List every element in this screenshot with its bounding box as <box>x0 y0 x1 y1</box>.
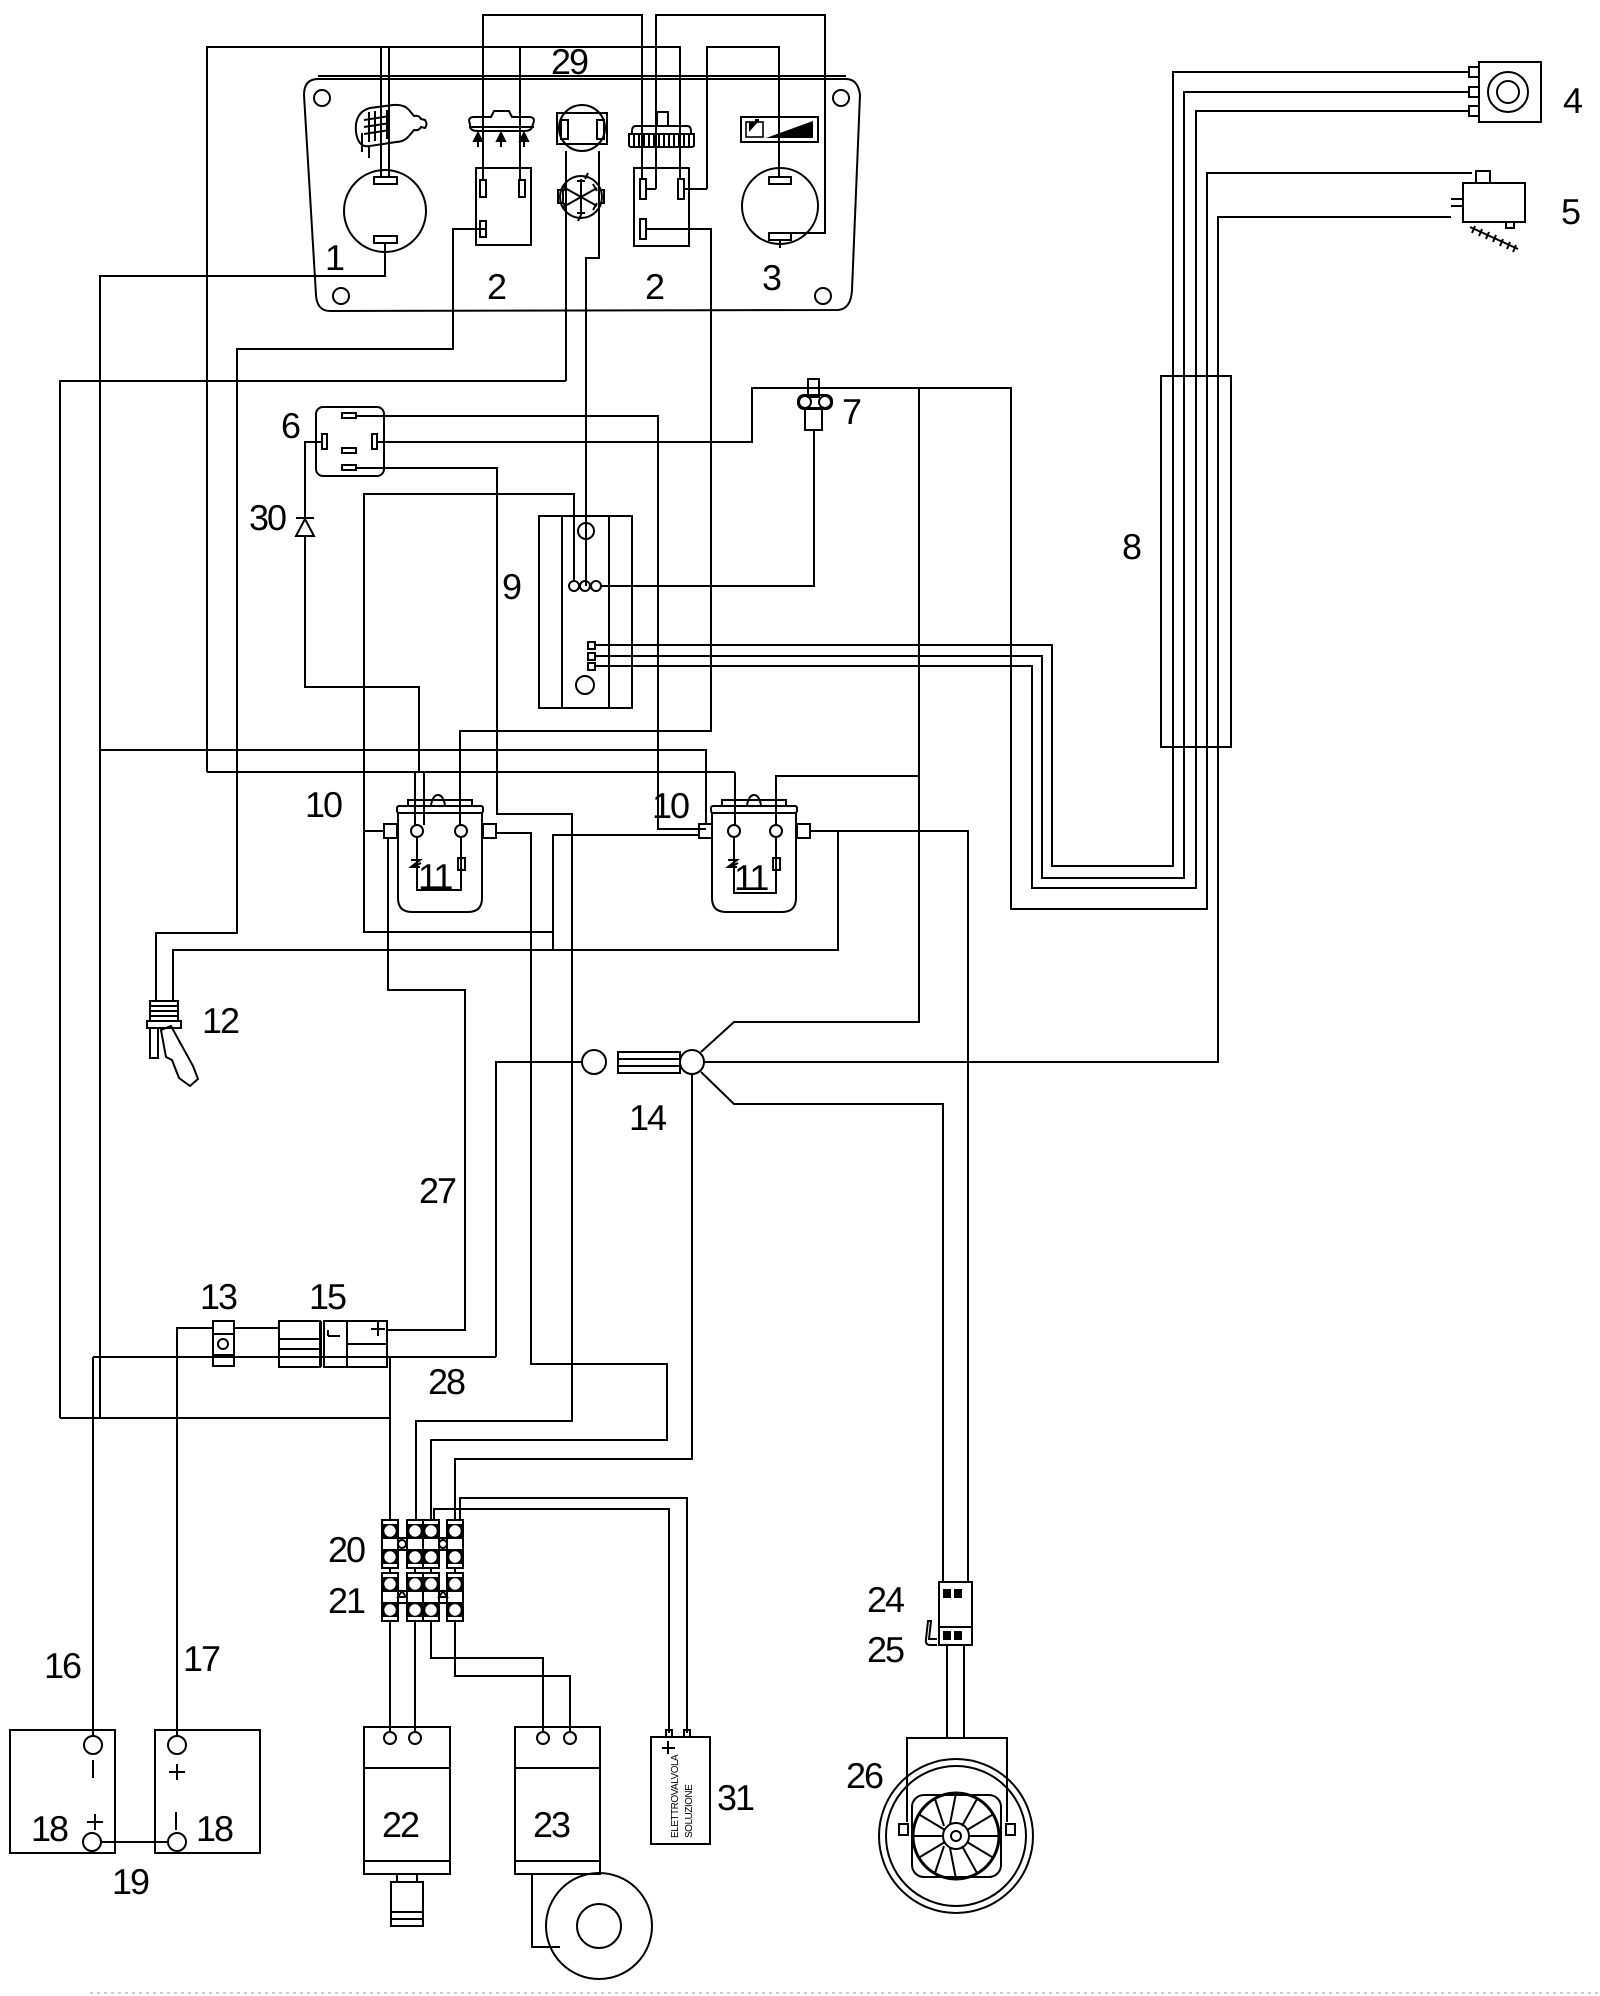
gauge 3 top terminal <box>769 177 791 184</box>
wire net 29: key supply line <box>207 47 680 772</box>
wire 19 battery link <box>101 1841 168 1843</box>
wire right motor right circle riser to sensor rail <box>776 776 919 825</box>
relay 6 right pin <box>372 434 377 449</box>
sensor 7 top stem <box>808 379 819 397</box>
blower 26 side tab left <box>899 1824 908 1835</box>
lamp connector 4 box <box>1479 62 1541 122</box>
terminal block 20 row <box>382 1520 463 1568</box>
blower 26 outer ring <box>879 1759 1033 1913</box>
wire sensor 7 to unit 9 terminal <box>601 430 814 586</box>
lamp connector 4 tab 3 <box>1469 106 1479 116</box>
svg-text:19: 19 <box>112 1861 149 1902</box>
motor 22 gearbox <box>391 1882 423 1926</box>
left motor 10 left terminal circle <box>411 825 423 837</box>
key switch 1 circle <box>344 170 426 252</box>
wire right motor left tab to drop x553 <box>553 835 700 950</box>
motor 23 left terminal <box>537 1732 549 1744</box>
motor 22 left terminal <box>384 1732 396 1744</box>
left motor 10 top bump <box>431 795 445 805</box>
wire pedal 14 drop to terminal blocks col4 <box>455 1074 692 1520</box>
solenoid valve 31 pin left <box>666 1730 672 1737</box>
solenoid valve 31 plus mark <box>662 1741 675 1754</box>
harness sleeve 8 <box>1161 376 1231 747</box>
motor 23 mount bracket <box>532 1874 560 1947</box>
wire 17 battery plus to fuse holder 13 <box>177 1328 213 1737</box>
battery 18 right minus mark <box>175 1812 177 1830</box>
wire fuse holder 13 to fuse 15 <box>234 1327 279 1329</box>
motor 22 right terminal <box>409 1732 421 1744</box>
wire pedal 14 left to fuse minus line <box>496 1062 583 1357</box>
battery 18 right box <box>155 1730 260 1853</box>
key switch 1 bottom terminal <box>374 236 397 243</box>
wire branch to switch 2a right terminal <box>519 47 521 180</box>
float switch 12 flange <box>147 1021 181 1028</box>
motor 23 right terminal <box>564 1732 576 1744</box>
right motor 10 body <box>712 813 796 912</box>
key switch 1 top terminal <box>374 177 397 184</box>
control unit 9 output pin 1 <box>588 642 595 649</box>
left motor 10 left tab <box>384 824 397 838</box>
wire unit 9 pin3 to harness wire C and lamp 4 <box>595 111 1469 888</box>
svg-text:5: 5 <box>1561 191 1580 232</box>
wire bridge switch 2b right to gauge 3 top <box>707 47 779 189</box>
control unit 9 input circle 3 <box>591 581 601 591</box>
svg-text:17: 17 <box>183 1638 220 1679</box>
wire block col3 to motor 23 left <box>431 1621 543 1733</box>
fuse 15 plus sign <box>371 1322 385 1336</box>
battery 18 left top terminal <box>84 1736 102 1754</box>
battery 18 left minus mark <box>92 1760 94 1778</box>
wire left motor left tab stub <box>364 830 384 832</box>
panel mounting hole bottom-left <box>333 288 349 304</box>
svg-text:2: 2 <box>487 266 506 307</box>
wire relay 6 top pin to motor tab link <box>356 416 706 829</box>
solenoid valve 31 box <box>651 1737 710 1844</box>
key icon above switch 1 <box>356 105 427 158</box>
wire buzzer-fan left column down to y381 <box>565 151 567 381</box>
left motor 10 right tab <box>483 824 496 838</box>
left motor 11 diode mark <box>411 860 421 867</box>
wire relay 6 left pin to diode 30 <box>305 442 322 518</box>
svg-text:24: 24 <box>867 1579 904 1620</box>
right motor 10 cap bar <box>711 806 797 813</box>
wire y1418 ground rail <box>60 1417 390 1419</box>
vacuum impeller circle <box>546 1873 652 1979</box>
battery 18 left plus mark <box>87 1814 103 1830</box>
motor 22 body <box>364 1727 450 1874</box>
right motor 11 inner loop <box>734 837 776 893</box>
wire key top terminal left riser <box>380 47 382 177</box>
fuse 15 minus sign <box>371 1356 385 1358</box>
vacuum impeller inner ring <box>577 1904 621 1948</box>
svg-text:20: 20 <box>328 1529 365 1570</box>
switch 2a body <box>476 168 531 245</box>
svg-text:11: 11 <box>734 857 768 898</box>
left motor 11 inner pin <box>458 858 465 870</box>
panel mounting hole top-left <box>314 90 330 106</box>
wire key top terminal right riser <box>388 47 390 177</box>
left motor 10 right terminal circle <box>455 825 467 837</box>
wire block col4 to motor 23 right <box>455 1621 570 1733</box>
buzzer bracket <box>557 113 607 144</box>
svg-text:26: 26 <box>846 1755 883 1796</box>
wire loop R2 linking switch 2b left and gauge 3 bottom <box>656 15 825 233</box>
switch 2a right terminal <box>519 180 525 197</box>
wire buzzer-fan right column jog down to unit 9 middle circle <box>586 151 599 586</box>
solenoid valve 31 pin right <box>684 1730 690 1737</box>
wire drop left motor left terminal a <box>414 772 416 825</box>
control unit 9 top circle <box>578 523 594 539</box>
right motor 10 top bump <box>747 795 761 805</box>
left motor 10 cap bar <box>397 806 483 813</box>
gauge 3 bottom stem <box>779 240 781 248</box>
wire 28 fuse minus to battery minus line <box>93 1356 496 1358</box>
switch 2b brush icon <box>629 112 694 147</box>
wire unit 9 circle1 to left motor tab rail <box>364 494 574 932</box>
relay 25 contacts <box>943 1631 951 1640</box>
svg-text:16: 16 <box>44 1645 81 1686</box>
wire pedal 14 lower diagonal to relay 24 <box>701 1072 943 1582</box>
gauge meter 3 circle <box>742 168 818 244</box>
blower 26 side tab right <box>1006 1824 1015 1835</box>
wire 16 battery left minus riser <box>92 1357 94 1737</box>
svg-text:15: 15 <box>309 1276 346 1317</box>
fuse 15 assembly <box>279 1321 387 1367</box>
wire switch 2b lower terminal to left motor right terminal <box>460 229 711 825</box>
control unit 9 input circle 1 <box>569 581 579 591</box>
wire relay 6 right pin to sensor 7 and harness wire D <box>377 388 1207 909</box>
switch 2a left terminal <box>480 180 486 197</box>
fuse holder 13 body <box>213 1321 234 1366</box>
switch 2a spray icon <box>469 111 534 131</box>
control unit 9 output pin 3 <box>588 663 595 670</box>
switch 2b right terminal <box>678 179 684 199</box>
fan symbol spokes <box>558 173 604 221</box>
pedal 14 left ball <box>582 1050 606 1074</box>
float switch 5 foot <box>1506 222 1514 228</box>
blower 26 outer ring inner line <box>886 1766 1026 1906</box>
control unit 9 box <box>539 516 632 708</box>
left motor 10 body <box>398 813 482 912</box>
svg-text:22: 22 <box>382 1804 419 1845</box>
wire harness D to float switch 5 <box>1207 173 1472 909</box>
float switch 5 left pin <box>1451 199 1463 206</box>
float switch 12 lever <box>161 1026 198 1086</box>
switch 2b lower terminal <box>640 219 646 239</box>
switch 2b left terminal <box>640 179 646 199</box>
wire valve 31 right feed from col4 <box>460 1498 687 1733</box>
wire fuse minus drop to block col1 <box>389 1357 391 1520</box>
lamp connector 4 tab 1 <box>1469 67 1479 77</box>
control unit 9 inner rail left <box>561 516 563 708</box>
bottom page dotted edge <box>90 1992 1600 1994</box>
blower 26 mount <box>907 1738 1007 1822</box>
wire block col2 to motor 22 right <box>414 1621 416 1733</box>
float switch 5 top notch <box>1476 171 1490 183</box>
wire branch from key net to right motor left tab <box>100 750 706 824</box>
wire relay 6 bottom pin to terminal block col2 <box>356 468 572 1520</box>
left motor 10 upper bar <box>408 800 472 806</box>
svg-text:18: 18 <box>196 1808 233 1849</box>
svg-text:18: 18 <box>31 1808 68 1849</box>
relay 6 bottom pin <box>342 465 356 470</box>
right motor 10 right terminal circle <box>770 825 782 837</box>
svg-text:25: 25 <box>867 1629 904 1670</box>
lamp connector 4 inner circle <box>1497 81 1519 103</box>
svg-text:14: 14 <box>629 1097 666 1138</box>
wire unit 9 pin1 to harness wire A and lamp 4 <box>595 72 1469 866</box>
blower 26 frame <box>912 1795 1001 1877</box>
control unit 9 inner rail right <box>608 516 610 708</box>
wire loop R1 linking switch 2a left and switch 2b left <box>483 15 642 180</box>
right motor 11 inner pin <box>773 858 780 870</box>
svg-text:27: 27 <box>419 1170 456 1211</box>
relay 6 body <box>316 407 384 476</box>
pedal 14 right ball <box>680 1050 704 1074</box>
control unit 9 input circle 2 <box>580 581 590 591</box>
buzzer circle <box>559 105 605 151</box>
lamp connector 4 outer circle <box>1488 72 1528 112</box>
svg-text:31: 31 <box>717 1777 754 1818</box>
wire switch 2a lower terminal to component 12 cap <box>156 229 486 1001</box>
svg-text:21: 21 <box>328 1580 365 1621</box>
right motor 10 upper bar <box>722 800 786 806</box>
svg-text:11: 11 <box>418 856 452 897</box>
battery 18 left box <box>10 1730 115 1853</box>
svg-text:9: 9 <box>502 566 521 607</box>
wire drop right motor left terminal <box>734 772 736 825</box>
control panel plate outline <box>304 79 860 311</box>
control unit 9 output pin 2 <box>588 653 595 660</box>
sensor 7 hex nut <box>798 395 832 409</box>
diode 30 <box>296 518 314 536</box>
svg-text:12: 12 <box>202 1000 239 1041</box>
pedal 14 striped bar <box>618 1052 680 1073</box>
right motor 10 left tab <box>699 824 712 838</box>
wire key bottom to lower distribution <box>100 243 385 1418</box>
wire relay 24-25 to blower right <box>963 1645 965 1738</box>
wire drop left motor left terminal b <box>423 772 425 825</box>
wire horizontal y381 to far left rail <box>60 381 566 1418</box>
motor 22 shaft <box>397 1874 417 1882</box>
battery 18 right bottom terminal <box>168 1833 186 1851</box>
float switch 12 stem <box>150 1028 158 1058</box>
svg-text:ELETTROVALVOLA: ELETTROVALVOLA <box>670 1754 681 1838</box>
panel mounting hole bottom-right <box>815 288 831 304</box>
svg-text:3: 3 <box>762 257 781 298</box>
wire rail y772 feeding both motor left terminals <box>207 771 735 773</box>
battery gauge icon 3 <box>741 117 818 142</box>
wire diode 30 down and to left motor feed <box>305 536 419 772</box>
svg-text:SOLUZIONE: SOLUZIONE <box>684 1784 695 1838</box>
relay 25 lever <box>926 1621 937 1645</box>
float switch 5 box <box>1463 183 1525 222</box>
relay 24-25 box <box>939 1582 972 1645</box>
svg-text:2: 2 <box>645 266 664 307</box>
battery 18 left bottom terminal <box>83 1833 101 1851</box>
relay 24 contacts <box>943 1589 951 1598</box>
wire unit 9 pin2 to harness wire B and lamp 4 <box>595 92 1469 878</box>
wire right motor right tab to relay 24 <box>809 831 968 1582</box>
lamp connector 4 tab 2 <box>1469 87 1479 97</box>
fan symbol circle <box>560 176 602 218</box>
svg-text:23: 23 <box>533 1804 570 1845</box>
svg-text:6: 6 <box>281 405 300 446</box>
wire stub switch 2b right terminal <box>684 188 707 190</box>
battery 18 right plus mark <box>169 1764 185 1780</box>
wire tee to pedal 14 upper diagonal <box>701 388 919 1052</box>
wire block col1 to motor 22 left <box>389 1621 391 1733</box>
motor 23 body <box>515 1727 600 1874</box>
battery 18 right top terminal <box>168 1736 186 1754</box>
terminal block 20-21 link stubs <box>390 1568 455 1573</box>
terminal block 21 row <box>382 1573 463 1621</box>
blower 26 fan wheel <box>913 1793 999 1879</box>
wire valve 31 left feed from col3 <box>434 1509 669 1733</box>
wire relay 24-25 to blower left <box>946 1645 948 1738</box>
wire stub switch 2b left terminal to R2 riser <box>646 188 656 190</box>
svg-text:30: 30 <box>249 497 286 538</box>
float switch 12 cap <box>150 1001 178 1021</box>
relay 6 top pin <box>342 413 356 418</box>
right motor 10 right tab <box>797 824 810 838</box>
switch 2a lower terminal <box>480 221 486 237</box>
left motor 11 inner loop <box>417 837 461 890</box>
right motor 10 left terminal circle <box>728 825 740 837</box>
wire float switch 12 right feed <box>173 831 838 1001</box>
relay 6 middle pin <box>342 448 356 453</box>
gauge 3 bottom terminal <box>769 233 791 240</box>
svg-text:13: 13 <box>200 1276 237 1317</box>
svg-text:4: 4 <box>1563 80 1582 121</box>
svg-text:8: 8 <box>1122 526 1141 567</box>
sensor 7 body <box>805 408 822 430</box>
svg-text:10: 10 <box>305 784 342 825</box>
svg-text:29: 29 <box>551 41 588 82</box>
switch 2b body <box>634 168 689 246</box>
switch 2a spray icon arrows <box>474 133 528 147</box>
right motor 11 diode mark <box>728 860 738 867</box>
panel mounting hole top-right <box>833 90 849 106</box>
float switch 5 screw shaft <box>1470 226 1518 252</box>
svg-text:28: 28 <box>428 1361 465 1402</box>
panel inner top edge line <box>318 75 846 77</box>
svg-text:7: 7 <box>842 391 861 432</box>
control unit 9 bottom circle <box>576 676 594 694</box>
svg-text:1: 1 <box>325 237 344 278</box>
wire left motor left tab bottom to fuse 15 plus <box>387 838 465 1330</box>
wire left motor right tab to fuse holder col3 <box>431 833 667 1520</box>
wire harness E to float switch 5 and pedal 14 <box>703 217 1451 1062</box>
relay 6 left pin <box>322 434 327 449</box>
svg-text:10: 10 <box>652 785 689 826</box>
